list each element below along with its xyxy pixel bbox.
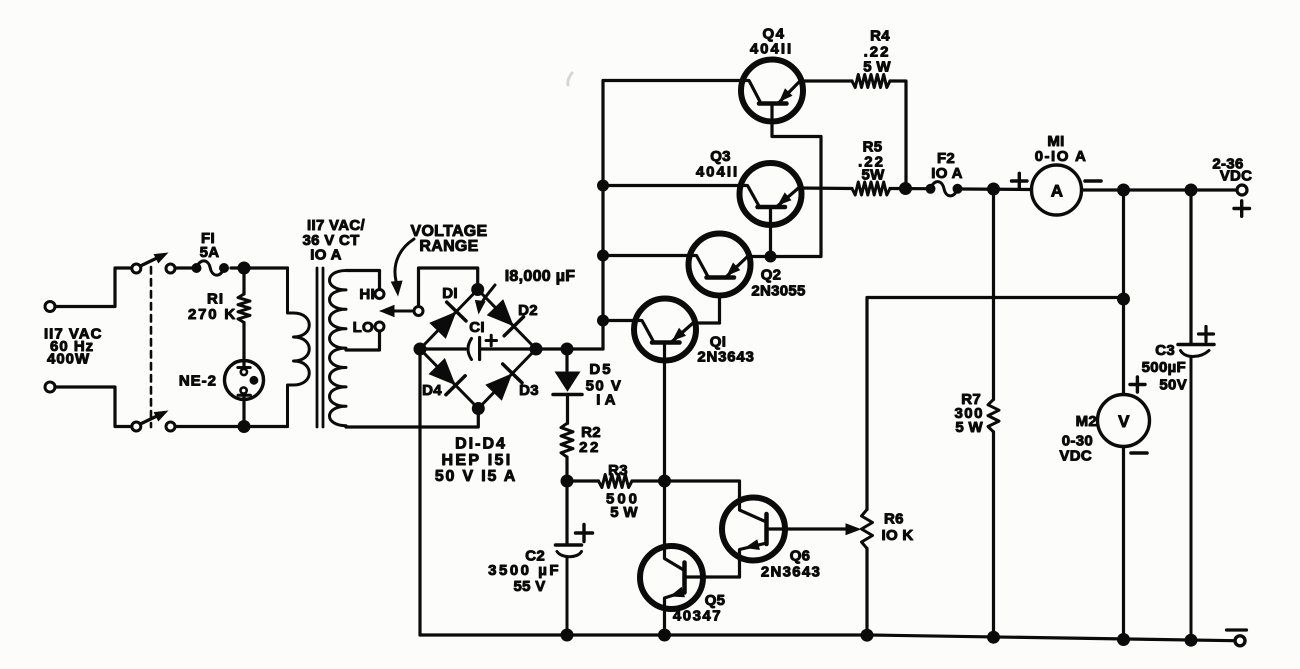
wire output node down to M2 <box>1122 190 1125 395</box>
wire node to Q5 collector <box>663 481 666 546</box>
svg-text:2N3055: 2N3055 <box>751 283 805 300</box>
secondary LO tap wire <box>346 331 380 350</box>
HI tap terminal <box>375 290 384 299</box>
M1 plus sign <box>1012 179 1028 182</box>
output terminal negative <box>1235 636 1245 646</box>
svg-text:2N3643: 2N3643 <box>761 564 821 581</box>
C2 plus sign <box>576 531 593 534</box>
transformer primary winding <box>288 268 310 427</box>
Q1 emitter wire to Q2 base <box>693 321 720 324</box>
transistor Q6 <box>722 498 785 561</box>
capacitor C2 <box>565 481 568 544</box>
svg-text:Q2: Q2 <box>761 267 782 284</box>
resistor R5 <box>852 182 890 195</box>
switch S1 top blade <box>140 258 157 266</box>
wire switch bottom to primary <box>175 425 288 428</box>
wire R6 bottom to ground bus <box>865 549 868 639</box>
svg-text:I A: I A <box>596 392 616 409</box>
resistor R3 <box>567 479 599 482</box>
C1 plus sign <box>486 339 497 342</box>
node Q1 collector tap <box>597 315 609 327</box>
junction dot R1 top <box>238 262 251 275</box>
Q3 base wire <box>769 207 772 257</box>
wire M1 to output terminal <box>1082 188 1237 191</box>
Q5 emitter wire to ground <box>663 609 666 636</box>
C3 plus sign <box>1199 332 1214 335</box>
input terminal bottom <box>45 382 55 392</box>
wire bridge left vertex down to ground bus <box>418 349 421 635</box>
Q6 emitter wire to Q5 base <box>738 561 741 578</box>
svg-text:404II: 404II <box>696 164 739 181</box>
capacitor C1 wire right <box>480 347 536 350</box>
Q2 base wire <box>718 296 721 324</box>
voltage range wiper terminal <box>414 307 423 316</box>
svg-text:D5: D5 <box>589 361 612 378</box>
Q3 collector wire <box>603 184 739 187</box>
svg-text:50V: 50V <box>1159 377 1187 394</box>
svg-text:R4: R4 <box>870 28 890 45</box>
output minus sign <box>1227 628 1247 631</box>
switch S1 bottom blade <box>140 416 157 424</box>
switch S1 top pole contact left <box>132 264 141 273</box>
svg-text:40347: 40347 <box>673 608 722 625</box>
Q4 base wire <box>771 104 822 257</box>
svg-text:3500 µF: 3500 µF <box>488 562 561 579</box>
svg-text:IO A: IO A <box>310 247 341 264</box>
svg-text:5W: 5W <box>861 167 885 184</box>
wire bridge bottom to secondary <box>346 409 478 428</box>
ground bus wire <box>420 635 1235 641</box>
svg-text:D2: D2 <box>518 302 538 319</box>
node R7 ground <box>987 631 1000 644</box>
svg-text:NE-2: NE-2 <box>179 373 217 390</box>
svg-text:50 V I5 A: 50 V I5 A <box>435 468 517 485</box>
wire switch to fuse F1 <box>175 266 192 269</box>
svg-text:CI: CI <box>469 319 485 336</box>
wire R2 to node <box>565 457 568 481</box>
svg-text:5A: 5A <box>200 244 220 261</box>
resistor R7 <box>988 399 999 432</box>
wiper arrow <box>393 310 414 313</box>
node R7 tap <box>987 183 1000 196</box>
wire fuse to transformer primary top, node <box>231 266 288 269</box>
wire raw DC bus up to Q4 collector <box>603 81 741 350</box>
LO tap terminal <box>375 322 384 331</box>
capacitor C1 <box>468 339 472 360</box>
resistor R2 <box>561 423 573 457</box>
svg-text:VDC: VDC <box>1220 168 1253 185</box>
Q2 collector wire <box>603 254 688 257</box>
pointer arrow to C1 <box>480 285 496 308</box>
transistor Q3 <box>740 163 802 225</box>
wire input bottom to switch <box>55 387 132 427</box>
output plus sign <box>1234 207 1250 210</box>
wire output node down to C3 <box>1189 190 1192 344</box>
input terminal top <box>45 302 55 312</box>
neon lamp NE-2 <box>225 361 264 400</box>
Q4 emitter wire <box>800 79 852 82</box>
switch S1 bottom pole contact right <box>166 422 175 431</box>
svg-text:5 W: 5 W <box>955 419 983 436</box>
wire node to Q6 collector <box>665 481 740 498</box>
node Q3 collector tap <box>597 180 609 192</box>
svg-text:A: A <box>1051 182 1064 201</box>
fuse F2 <box>926 184 936 194</box>
svg-text:270 K: 270 K <box>188 306 237 323</box>
switch S1 bottom pole contact left <box>132 422 141 431</box>
diode D4 <box>429 358 456 385</box>
node Q5 ground <box>658 629 671 642</box>
wire bridge right to raw DC node <box>536 347 603 350</box>
node M2 branch tap <box>1117 184 1130 197</box>
svg-text:LO: LO <box>353 319 374 336</box>
svg-text:RI: RI <box>207 291 224 308</box>
svg-text:Q5: Q5 <box>705 592 726 609</box>
capacitor C3 <box>1178 343 1214 347</box>
transistor Q2 <box>689 234 751 296</box>
wire input top to switch <box>55 268 132 307</box>
svg-text:M2: M2 <box>1076 413 1097 430</box>
svg-text:HEP I5I: HEP I5I <box>442 452 513 469</box>
secondary HI tap wire <box>346 271 380 290</box>
node R6 ground <box>861 629 874 642</box>
svg-text:D3: D3 <box>519 382 539 399</box>
M2 plus sign <box>1130 383 1145 386</box>
output terminal positive <box>1237 185 1247 195</box>
resistor R4 <box>852 75 890 88</box>
wire R6 top to M2 branch <box>867 298 1124 510</box>
svg-text:R3: R3 <box>608 462 628 479</box>
svg-text:500µF: 500µF <box>1142 359 1186 376</box>
wire wiper to bridge top <box>419 268 478 307</box>
node C3 branch tap <box>1185 184 1198 197</box>
wire lamp bottom <box>242 400 245 427</box>
node bridge left vertex <box>414 343 427 356</box>
svg-text:22: 22 <box>579 439 601 456</box>
node R4 R5 junction <box>890 187 926 190</box>
voltage range pointer arrow <box>395 239 414 281</box>
Q2 emitter wire <box>748 255 771 258</box>
diode D5 <box>565 349 568 371</box>
wire R4 to output node <box>890 81 906 189</box>
svg-text:V: V <box>1118 412 1130 431</box>
M1 minus sign <box>1085 179 1101 183</box>
node bridge top vertex <box>471 283 484 296</box>
wire M2 to ground bus <box>1122 447 1125 641</box>
svg-text:VDC: VDC <box>1059 448 1092 465</box>
diode D1 <box>429 312 456 339</box>
capacitor C1 wire left <box>420 347 466 350</box>
node R3 Q1 base Q5 junction <box>658 475 671 488</box>
bridge diamond wires <box>420 290 536 409</box>
switch gang dashed link <box>150 267 153 427</box>
svg-text:DI: DI <box>442 285 458 302</box>
node R2 R3 C2 junction <box>561 475 574 488</box>
node Q3 Q4 base junction <box>765 251 777 263</box>
ammeter M1 <box>1032 165 1082 215</box>
svg-text:Q6: Q6 <box>790 548 811 565</box>
svg-text:DI-D4: DI-D4 <box>455 436 507 453</box>
svg-text:404II: 404II <box>750 41 793 58</box>
svg-text:R6: R6 <box>884 511 904 528</box>
svg-text:400W: 400W <box>47 351 90 368</box>
svg-text:5 W: 5 W <box>610 504 638 521</box>
svg-text:C3: C3 <box>1155 342 1175 359</box>
transformer secondary winding <box>330 271 347 428</box>
fuse F1 <box>192 263 202 273</box>
Q1 collector wire <box>603 319 634 322</box>
Q1 base wire down <box>663 343 666 482</box>
transistor Q4 <box>741 60 803 122</box>
node Q2 collector tap <box>597 250 609 262</box>
node bridge bottom vertex <box>472 402 485 415</box>
svg-text:55 V: 55 V <box>513 578 545 595</box>
junction dot NE-2 bottom <box>238 420 251 433</box>
transistor Q1 <box>634 299 696 361</box>
svg-text:0-IO A: 0-IO A <box>1035 148 1088 165</box>
diode D2 <box>487 299 514 326</box>
svg-text:2N3643: 2N3643 <box>697 349 754 366</box>
svg-text:RANGE: RANGE <box>419 238 478 255</box>
svg-text:5 W: 5 W <box>863 59 891 76</box>
node R6 wire junction <box>1117 293 1130 306</box>
scan artifact smudge <box>568 73 572 85</box>
node C2 ground <box>561 629 574 642</box>
Q3 emitter wire <box>799 186 853 190</box>
wire R7 to ground bus <box>992 432 995 639</box>
node raw DC / D5 top <box>561 343 574 356</box>
diode D3 <box>485 373 512 400</box>
transistor Q5 <box>640 546 703 609</box>
transformer core <box>316 268 319 427</box>
node M2 ground <box>1117 633 1130 646</box>
wire output node down through R7 <box>992 189 995 399</box>
resistor R6 potentiometer <box>862 510 873 549</box>
resistor R1 vertical <box>242 268 245 294</box>
svg-text:IO K: IO K <box>882 527 914 544</box>
svg-text:I8,000 µF: I8,000 µF <box>505 268 576 285</box>
svg-text:HI: HI <box>359 286 375 303</box>
M2 minus sign <box>1131 451 1147 455</box>
Q6 base wire with arrow to R6 wiper <box>766 527 846 530</box>
svg-text:Q3: Q3 <box>710 148 731 165</box>
node C3 ground <box>1185 634 1198 647</box>
wire F2 to M1 <box>963 187 1032 191</box>
voltmeter M2 <box>1098 395 1150 447</box>
svg-text:D4: D4 <box>422 382 442 399</box>
switch S1 top pole contact right <box>166 264 175 273</box>
node bridge right vertex <box>530 343 543 356</box>
Q5 base wire <box>684 575 740 578</box>
svg-text:IO A: IO A <box>931 165 962 182</box>
